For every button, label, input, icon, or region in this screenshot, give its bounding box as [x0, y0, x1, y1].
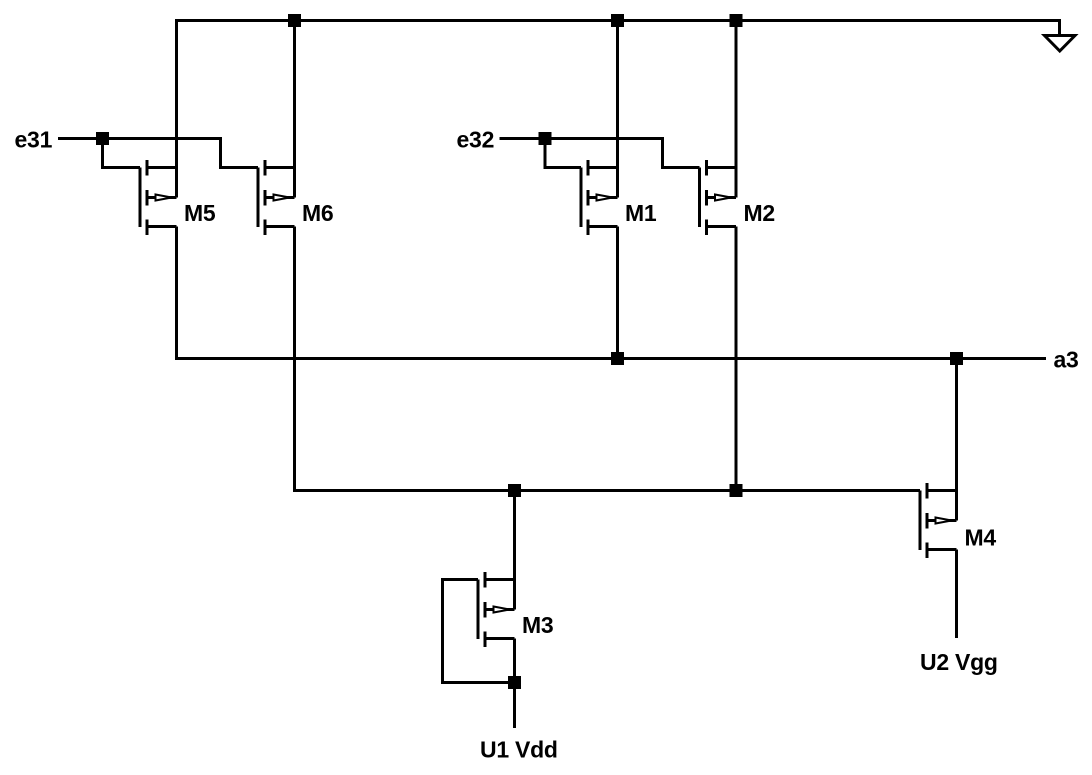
svg-text:M4: M4 [965, 525, 997, 551]
wire: e32 lead to M2 gate (with jog) [500, 139, 700, 168]
wire: M1 source vertical down to a3 net [616, 227, 619, 359]
wire: M1 drain vertical to top rail [616, 19, 619, 198]
wire: top supply rail with right-end drop [175, 21, 1060, 36]
wire: M3 source vertical down to U1 Vdd stub [513, 639, 516, 729]
transistor M5 [140, 160, 177, 235]
junction: e32 lead branch [539, 132, 552, 145]
svg-text:U2 Vgg: U2 Vgg [920, 649, 998, 675]
svg-text:U1 Vdd: U1 Vdd [480, 737, 558, 763]
junction: M3 source / gate loop [508, 676, 521, 689]
wire: M5 drain vertical to top rail [175, 19, 178, 198]
junction: a3 net / M4 drain [950, 352, 963, 365]
wire: M2 drain vertical to top rail [735, 19, 738, 198]
ground symbol (open down triangle) at top right [1045, 36, 1076, 52]
wire: M4 drain vertical up to a3 net [955, 359, 958, 521]
svg-text:M1: M1 [625, 200, 657, 226]
transistor M3 [478, 572, 515, 647]
wire: a3 net horizontal [175, 357, 1046, 360]
junction: top rail / M1 drain [611, 14, 624, 27]
junction: a3 net / M1 source [611, 352, 624, 365]
wire: M5 source vertical down to a3 net [175, 227, 178, 359]
svg-text:M6: M6 [302, 200, 333, 226]
wire: M4 source stub down to U2 Vgg [955, 550, 958, 639]
transistor M4 [920, 483, 957, 558]
wire: M3 drain vertical up to middle row [513, 491, 516, 610]
svg-text:M5: M5 [184, 200, 216, 226]
wire: M6 source vertical down and middle row to M4 gate [295, 227, 921, 491]
junction: top rail / M2 drain [730, 14, 743, 27]
wire: M3 gate feedback loop to source node [443, 580, 515, 683]
transistor M1 [581, 160, 618, 235]
junction: middle row / M2 source [730, 484, 743, 497]
transistor M6 [258, 160, 295, 235]
wire: M2 source vertical down to middle row [735, 227, 738, 491]
wire: M6 drain vertical to top rail [293, 19, 296, 198]
svg-text:e32: e32 [457, 127, 495, 153]
junction: top rail / M6 drain [288, 14, 301, 27]
svg-text:M2: M2 [744, 200, 775, 226]
wire: e32 branch to M1 gate [545, 139, 581, 168]
junction: middle row / M3 drain [508, 484, 521, 497]
junction: e31 lead branch [96, 132, 109, 145]
wire: e31 lead to M6 gate (with jog) [58, 139, 258, 168]
wire: e31 branch to M5 gate [103, 139, 141, 168]
svg-text:a3: a3 [1054, 347, 1079, 373]
svg-text:e31: e31 [15, 127, 53, 153]
transistor M2 [700, 160, 737, 235]
svg-text:M3: M3 [522, 612, 553, 638]
